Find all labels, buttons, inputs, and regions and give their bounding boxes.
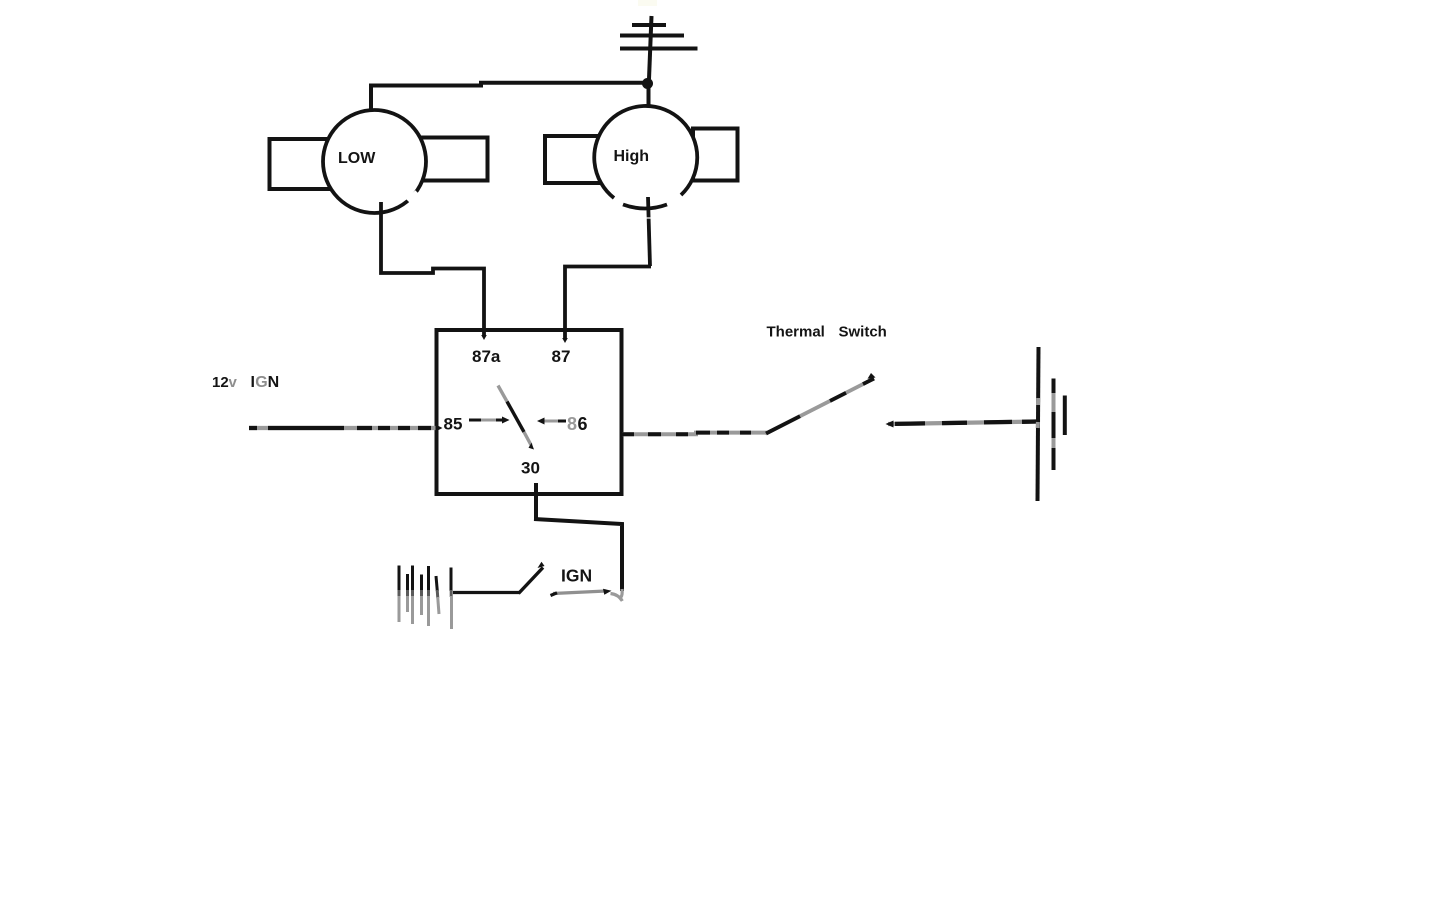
arrow 85 bbox=[469, 419, 503, 422]
wire battery to ignition switch bbox=[453, 591, 519, 594]
wire hook at bottom bbox=[611, 589, 623, 601]
svg-text:G: G bbox=[255, 374, 267, 391]
wire High lamp to relay 87 bbox=[648, 197, 650, 266]
faint scan tint at top bbox=[638, 0, 657, 6]
ground (right) plate 2 bbox=[1052, 379, 1056, 471]
svg-text:IGN: IGN bbox=[561, 566, 592, 586]
pin 87a arrowhead bbox=[481, 335, 487, 340]
wire LOW top to junction bbox=[371, 83, 645, 112]
ground (top) bbox=[620, 16, 698, 79]
svg-text:87a: 87a bbox=[472, 347, 501, 366]
node junction dot bbox=[642, 78, 653, 89]
svg-text:87: 87 bbox=[552, 347, 571, 366]
lamp High circle bbox=[594, 108, 697, 211]
lamp LOW left tab bbox=[270, 139, 330, 189]
svg-text:12: 12 bbox=[212, 374, 229, 391]
lamp LOW right tab bbox=[421, 138, 488, 181]
svg-text:8: 8 bbox=[567, 414, 577, 434]
lamp LOW circle bbox=[323, 110, 426, 213]
svg-text:30: 30 bbox=[521, 459, 540, 478]
svg-text:Thermal: Thermal bbox=[767, 324, 825, 341]
wire IGN to relay 30 return bbox=[553, 591, 606, 594]
wire relay 30 down bbox=[534, 483, 538, 519]
wire thermal switch to ground bbox=[888, 422, 1040, 425]
pin 87 arrowhead bbox=[562, 338, 568, 343]
svg-text:LOW: LOW bbox=[338, 150, 376, 167]
gap in LOW circle (bottom right) bbox=[408, 192, 417, 201]
ignition switch blade bbox=[519, 568, 544, 594]
lamp High bottom arc bbox=[623, 205, 667, 209]
svg-text:v: v bbox=[229, 374, 238, 391]
relay contact blade bbox=[498, 386, 507, 402]
battery plates bbox=[399, 566, 452, 630]
small pen gaps bbox=[645, 217, 653, 219]
lamp High left tab bbox=[545, 136, 600, 183]
ground (right) plate 3 bbox=[1063, 396, 1067, 436]
arrow 86 bbox=[542, 420, 566, 423]
wire junction to High lamp bbox=[647, 78, 651, 109]
lamp High right tab bbox=[693, 129, 738, 181]
wire relay 86 to thermal switch bbox=[622, 433, 767, 435]
wire LOW lamp to relay 87a bbox=[381, 202, 484, 337]
svg-text:N: N bbox=[268, 374, 280, 391]
svg-text:Switch: Switch bbox=[839, 324, 887, 341]
svg-text:High: High bbox=[614, 148, 650, 165]
wire 12v IGN to relay 85 bbox=[249, 426, 437, 430]
svg-text:85: 85 bbox=[444, 415, 463, 434]
thermal switch blade bbox=[766, 379, 874, 434]
svg-text:6: 6 bbox=[578, 414, 588, 434]
relay box bbox=[437, 330, 622, 494]
ground (right) plate 1 bbox=[1038, 347, 1039, 501]
